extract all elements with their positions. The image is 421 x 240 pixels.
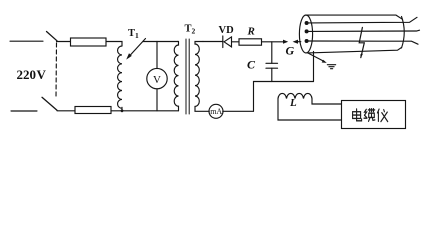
fuse FU2 (bottom)	[75, 107, 111, 114]
wire bottom switch to fuse	[57, 110, 75, 112]
wire riser to node under C	[254, 82, 314, 112]
fault mark (lightning)	[359, 27, 364, 58]
diode VD	[223, 36, 239, 48]
wire mA to riser	[223, 110, 254, 112]
label 电缆仪 (hand-drawn glyphs)	[353, 109, 388, 122]
svg-text:L: L	[289, 97, 297, 109]
milliammeter mA	[209, 104, 223, 118]
capacitor C top lead	[271, 42, 273, 64]
svg-text:R: R	[247, 26, 255, 38]
transformer T2 secondary winding	[195, 42, 209, 112]
switch S bottom blade	[42, 97, 57, 110]
cable end ellipse	[299, 15, 312, 53]
svg-text:C: C	[247, 57, 256, 71]
capacitor C bottom lead	[271, 68, 273, 81]
glyph 电	[353, 109, 362, 121]
wire fuse to T1	[106, 42, 122, 47]
svg-text:VD: VD	[219, 25, 235, 36]
svg-text:V: V	[153, 74, 161, 86]
ground symbol	[327, 65, 335, 69]
voltmeter V riser bottom	[156, 89, 158, 111]
ground lead from sheath	[307, 53, 327, 63]
T1 wiper arrow	[126, 39, 145, 60]
resistor R	[239, 39, 262, 45]
wire top switch to fuse	[57, 41, 71, 43]
fuse FU1 (top)	[71, 38, 107, 46]
cable sheath top outline	[306, 15, 403, 19]
wire top-left supply stub	[10, 40, 43, 42]
cable conductor bottom	[308, 41, 418, 44]
cable right end arc	[402, 17, 405, 49]
cable conductor top	[308, 17, 417, 23]
glyph 缆	[364, 109, 375, 122]
inductor L (pickup coil)	[278, 93, 312, 98]
junction T1 bottom	[121, 109, 124, 112]
cable conductor middle	[308, 30, 419, 31]
wire T1 wiper to T2 primary	[143, 41, 178, 43]
cable sheath bottom outline	[308, 48, 402, 53]
switch S mechanical link (dashed)	[55, 43, 58, 98]
wire T2 secondary to diode	[203, 41, 223, 43]
wire bottom rail fuse to T2	[111, 110, 179, 112]
voltmeter V riser top	[156, 42, 158, 69]
svg-text:G: G	[286, 44, 295, 58]
svg-text:mA: mA	[210, 107, 222, 116]
cable sheath riser	[313, 52, 315, 82]
transformer T1 winding (variac)	[118, 46, 122, 111]
spark gap G	[283, 40, 301, 44]
voltmeter V	[147, 68, 167, 88]
switch S top blade	[47, 32, 58, 41]
glyph 仪	[377, 109, 387, 121]
transformer T2 primary winding	[174, 42, 178, 111]
wire R to gap junction	[262, 41, 284, 43]
capacitor C	[266, 63, 278, 68]
transformer T2 core	[186, 39, 189, 114]
wire L left to instrument (bottom)	[278, 99, 342, 121]
cable tester box	[342, 101, 406, 129]
cable conductor dots	[305, 21, 309, 43]
svg-text:220V: 220V	[17, 67, 47, 82]
wire L right to instrument (top)	[312, 99, 342, 105]
wire bottom-left supply stub	[11, 110, 37, 112]
